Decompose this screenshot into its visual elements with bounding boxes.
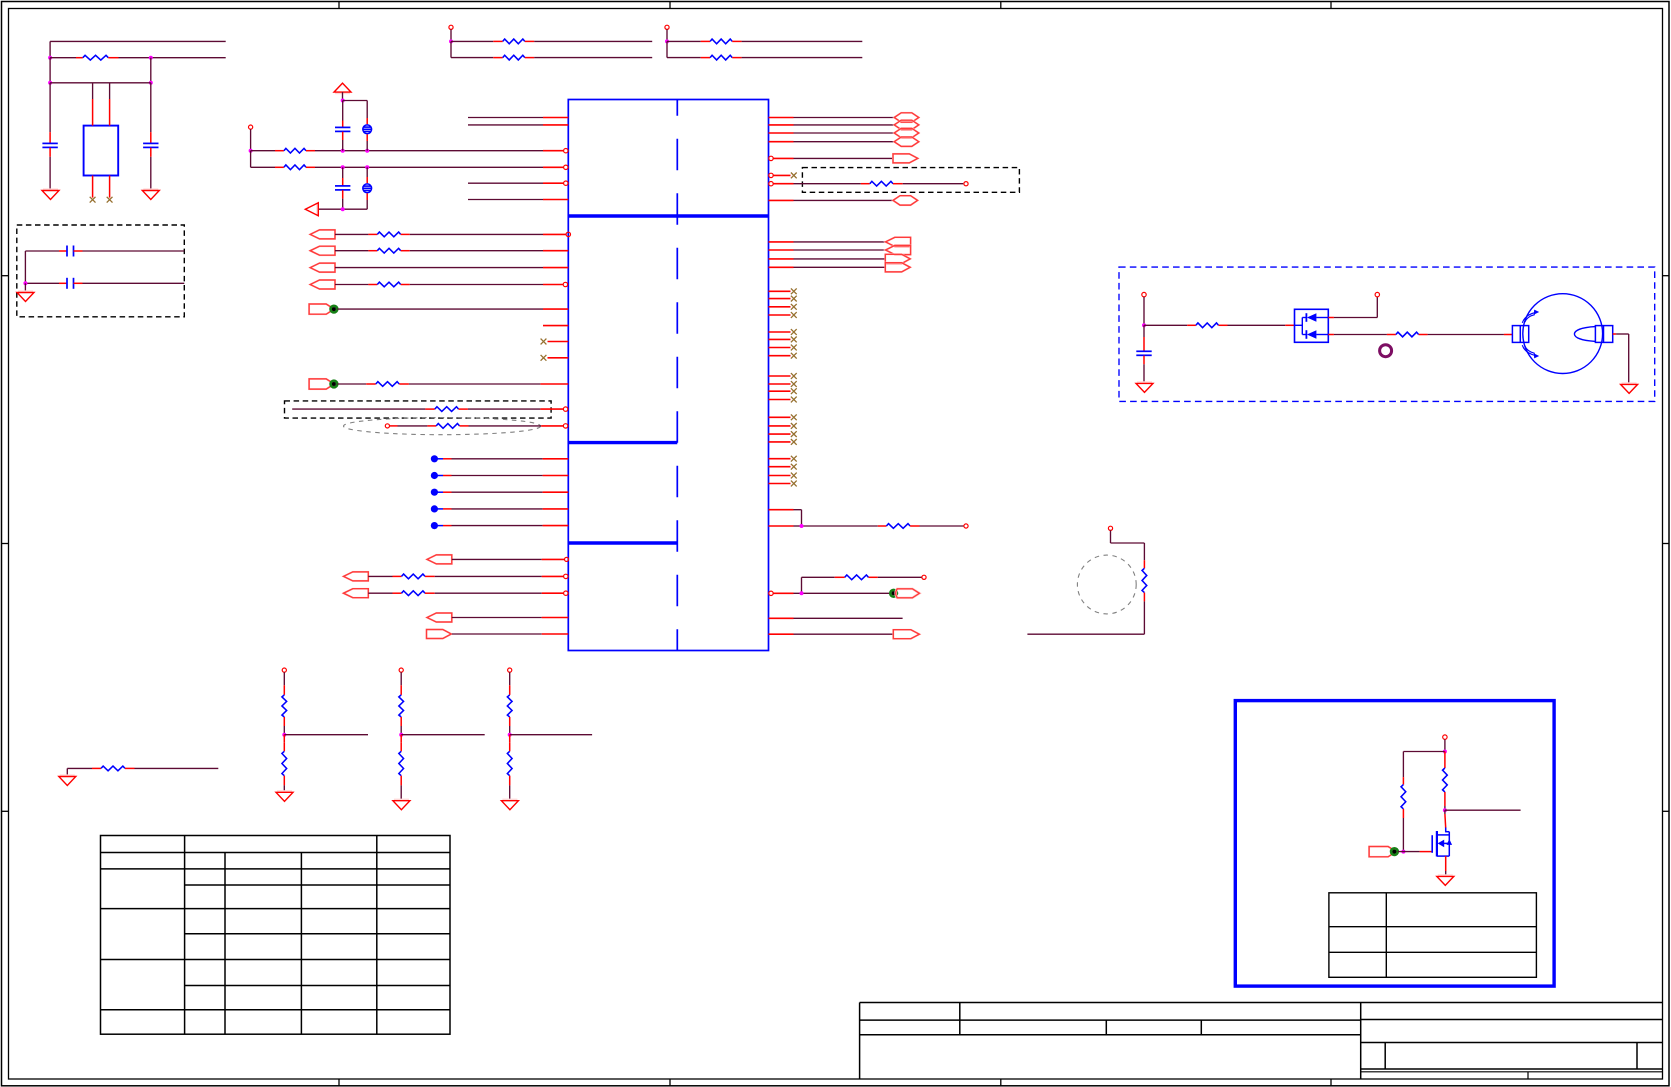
output flag net bbox=[769, 263, 911, 272]
input flag + resistor R14 bbox=[344, 572, 569, 581]
wire net A0 bbox=[468, 181, 568, 185]
input flag + resistor R9 bbox=[310, 246, 568, 255]
junction bbox=[23, 281, 27, 285]
wire crystal pin 3 no-connect bbox=[92, 176, 94, 198]
pin P10 bbox=[508, 668, 512, 685]
junction bbox=[665, 39, 669, 43]
input flag net bbox=[769, 237, 911, 246]
wire net A1 bbox=[468, 199, 568, 201]
motor M1 horn bbox=[1574, 327, 1595, 342]
ground bbox=[42, 190, 59, 200]
revision table bbox=[101, 836, 451, 1035]
resistor R1 bbox=[50, 55, 226, 60]
resistor R27 pull-down bbox=[507, 735, 512, 801]
motor rotation arrow top bbox=[1522, 310, 1539, 323]
capacitor C3 bbox=[25, 246, 184, 257]
resistor R25 pull-down bbox=[399, 735, 404, 801]
resistor R7 bbox=[251, 165, 568, 170]
resistor R28 to ground bbox=[67, 766, 218, 776]
no-connect X pin bbox=[769, 431, 797, 437]
wire bbox=[50, 58, 151, 83]
wire VDD top rail bbox=[50, 41, 226, 57]
wire tap bbox=[284, 734, 368, 736]
junction bbox=[149, 81, 153, 85]
no-connect X pin bbox=[769, 312, 797, 318]
resistor R2 bbox=[451, 39, 652, 44]
resistor R26 pull-up bbox=[507, 685, 512, 734]
wire bbox=[666, 41, 668, 57]
crystal disc Y2a bbox=[363, 101, 372, 151]
junction bbox=[341, 99, 345, 103]
pin P7 bbox=[1108, 526, 1112, 543]
crystal Y1 bbox=[84, 126, 119, 176]
dashed net box bbox=[285, 401, 552, 418]
resistor R19 bbox=[1144, 323, 1295, 328]
power arrow left bbox=[305, 203, 318, 216]
no-connect X pin bbox=[769, 388, 797, 394]
resistor R22 pull-up bbox=[282, 685, 287, 734]
wire bbox=[343, 100, 368, 102]
title block bbox=[860, 1003, 1663, 1080]
input flag + resistor R8 bbox=[310, 230, 570, 239]
flag green pin right bbox=[769, 589, 920, 598]
wire bbox=[801, 577, 803, 593]
inductor wire with resistor R21 bbox=[1027, 543, 1146, 634]
power arrow VDD bbox=[334, 83, 351, 93]
IC U1 internal dashed divider bbox=[676, 100, 678, 651]
no-connect X pin bbox=[769, 329, 797, 335]
dashed function box bbox=[1119, 267, 1655, 401]
IC U1 body bbox=[568, 100, 768, 651]
capacitor C2 bbox=[143, 83, 158, 191]
ground bbox=[276, 792, 293, 802]
resistor R5 bbox=[667, 55, 862, 60]
wire net D1 bbox=[468, 124, 568, 126]
wire branch bbox=[1403, 751, 1445, 753]
ground bbox=[142, 190, 159, 200]
capacitor C5 bbox=[335, 101, 350, 151]
dual diode D1 internals bbox=[1295, 313, 1329, 339]
net stub with blue dot bbox=[431, 455, 569, 462]
junction bbox=[800, 591, 804, 595]
net stub with blue dot bbox=[431, 522, 569, 529]
wire node XTAL rail bbox=[50, 82, 151, 84]
flag green pin + resistor R11 bbox=[309, 379, 568, 389]
ground bbox=[1621, 384, 1638, 394]
pin P2 bbox=[665, 25, 669, 41]
wire tap bbox=[510, 734, 592, 736]
no-connect X pin bbox=[541, 355, 569, 361]
resistor R29 bbox=[1443, 752, 1448, 811]
no-connect X pin bbox=[769, 439, 797, 445]
detail box bbox=[1235, 701, 1554, 987]
net stub with blue dot bbox=[431, 472, 569, 479]
junction bbox=[399, 733, 403, 737]
ground bbox=[17, 292, 34, 302]
junction bbox=[282, 733, 286, 737]
ground bbox=[1136, 383, 1153, 393]
no-connect X pin bbox=[769, 288, 797, 294]
motor M1 terminal right bbox=[1595, 326, 1612, 343]
resistor R24 pull-up bbox=[399, 685, 404, 734]
no-connect X pin bbox=[769, 381, 797, 387]
input flag bbox=[427, 613, 568, 622]
junction bbox=[341, 149, 345, 153]
motor M1 body bbox=[1523, 294, 1603, 374]
wire gate bbox=[1398, 851, 1432, 853]
junction bbox=[1401, 850, 1405, 854]
bus wire + bidirectional flag bbox=[769, 120, 919, 129]
IC U1 section divider 2 bbox=[568, 441, 677, 444]
bus wire + bidirectional flag bbox=[769, 128, 919, 137]
junction bbox=[365, 165, 369, 169]
stub pin bbox=[543, 325, 568, 327]
motor M1 terminal left bbox=[1512, 326, 1528, 343]
wire bbox=[24, 251, 26, 283]
input flag bbox=[310, 263, 568, 272]
junction bbox=[48, 81, 52, 85]
junction bbox=[508, 733, 512, 737]
no-connect X pin bbox=[769, 481, 797, 487]
wire drain bbox=[1444, 810, 1447, 828]
pin P3 bbox=[249, 125, 253, 151]
wire bbox=[342, 92, 344, 100]
resistor R20 bbox=[1328, 332, 1512, 337]
crystal disc Y2b bbox=[363, 167, 372, 209]
wire bbox=[250, 151, 252, 168]
junction bbox=[449, 39, 453, 43]
wire net bbox=[769, 617, 903, 619]
input flag + resistor R15 bbox=[344, 589, 569, 598]
dashed group box bbox=[17, 225, 185, 317]
pin P11 bbox=[1443, 735, 1447, 752]
junction bbox=[1443, 750, 1447, 754]
resistor R18 to pin bbox=[802, 575, 927, 580]
junction bbox=[341, 207, 345, 211]
junction bbox=[249, 149, 253, 153]
dashed net box right bbox=[802, 168, 1019, 193]
bus wire + bidirectional flag bbox=[769, 113, 919, 122]
junction bbox=[1443, 808, 1447, 812]
spec table bbox=[1329, 893, 1537, 978]
capacitor C7 bbox=[1136, 325, 1151, 383]
pin P1 bbox=[449, 25, 453, 41]
resistor R12 bbox=[292, 407, 568, 412]
resistor R23 pull-down bbox=[282, 735, 287, 793]
no-connect X pin bbox=[769, 304, 797, 310]
flag with green pin bbox=[309, 304, 568, 314]
no-connect X pin bbox=[769, 345, 797, 351]
pin P8 bbox=[282, 668, 286, 685]
net ring bbox=[1380, 345, 1392, 357]
junction bbox=[48, 56, 52, 60]
junction bbox=[1142, 323, 1146, 327]
dual diode D1 package bbox=[1295, 309, 1329, 342]
capacitor C1 bbox=[42, 83, 57, 191]
junction bbox=[149, 56, 153, 60]
wire net D0 bbox=[468, 117, 568, 119]
output flag bbox=[427, 630, 569, 639]
no-connect X pin bbox=[769, 353, 797, 359]
resistor R6 bbox=[251, 148, 568, 153]
IC U1 section divider 3 bbox=[568, 541, 677, 544]
ground bbox=[501, 800, 518, 810]
ground bbox=[59, 776, 76, 786]
ground bbox=[393, 800, 410, 810]
wire tap bbox=[401, 734, 485, 736]
transistor Q1 NMOS bbox=[1432, 828, 1452, 877]
wire corner bbox=[769, 510, 802, 526]
wire bbox=[450, 41, 452, 57]
pin P5 bbox=[1142, 292, 1146, 325]
pin P4 + resistor R13 bbox=[385, 424, 568, 429]
capacitor C6 bbox=[335, 167, 350, 209]
dashed motor outline bbox=[1077, 555, 1136, 614]
no-connect pin bbox=[769, 173, 797, 179]
no-connect X pin bbox=[769, 423, 797, 429]
resistor R17 to pin bbox=[769, 524, 969, 529]
no-connect X pin bbox=[769, 337, 797, 343]
resistor R3 bbox=[451, 55, 652, 60]
wire gate tap bbox=[1445, 809, 1521, 811]
no-connect X pin bbox=[769, 296, 797, 302]
no-connect X bbox=[90, 197, 96, 203]
net stub with blue dot bbox=[431, 505, 569, 512]
wire bottom rail bbox=[318, 208, 367, 210]
wire motor to ground bbox=[1613, 334, 1629, 384]
input flag bbox=[427, 555, 569, 564]
junction bbox=[800, 524, 804, 528]
pin P6 bbox=[1375, 292, 1379, 296]
no-connect X pin bbox=[769, 456, 797, 462]
dashed highlight ellipse bbox=[344, 418, 541, 435]
output flag net bbox=[769, 630, 920, 639]
input flag net bbox=[769, 245, 911, 254]
resistor R16 to pin bbox=[769, 181, 968, 186]
no-connect X pin bbox=[769, 397, 797, 403]
no-connect X pin bbox=[769, 414, 797, 420]
resistor R4 bbox=[667, 39, 862, 44]
no-connect X pin bbox=[769, 373, 797, 379]
bidirectional flag net bbox=[769, 196, 918, 205]
input flag + resistor R10 bbox=[310, 280, 567, 289]
no-connect X pin bbox=[541, 339, 569, 345]
wire crystal pin 2 bbox=[109, 83, 111, 126]
wire bbox=[24, 283, 26, 292]
wire to pin P6 bbox=[1328, 297, 1377, 318]
junction bbox=[341, 165, 345, 169]
motor rotation arrow bottom bbox=[1522, 345, 1539, 358]
capacitor C4 bbox=[25, 278, 184, 289]
wire crystal pin 1 bbox=[92, 83, 94, 126]
wire crystal pin 4 no-connect bbox=[109, 176, 111, 198]
no-connect X pin bbox=[769, 464, 797, 470]
resistor R30 bbox=[1401, 752, 1406, 852]
no-connect X pin bbox=[769, 473, 797, 479]
flag green pin gate bbox=[1369, 847, 1398, 857]
net stub with blue dot bbox=[431, 489, 569, 496]
bus wire + bidirectional flag bbox=[769, 137, 919, 146]
pin P9 bbox=[399, 668, 403, 685]
junction bbox=[365, 149, 369, 153]
IC U1 section divider 1 bbox=[568, 214, 768, 217]
no-connect X bbox=[107, 197, 113, 203]
output flag net bbox=[769, 254, 911, 263]
output flag net bbox=[769, 154, 918, 163]
ground bbox=[1437, 876, 1454, 886]
